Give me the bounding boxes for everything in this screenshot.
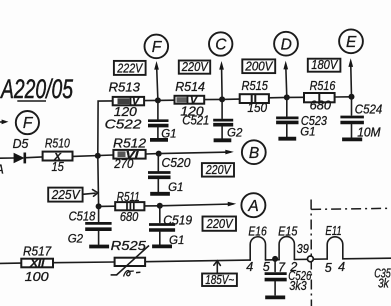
svg-text:10M: 10M bbox=[357, 125, 381, 139]
capacitor C521 bbox=[182, 99, 233, 138]
svg-text:39: 39 bbox=[297, 242, 309, 256]
junction A arrow bbox=[157, 203, 163, 209]
svg-text:G2: G2 bbox=[227, 127, 243, 139]
arrow up to terminal D bbox=[283, 61, 288, 98]
svg-text:222V: 222V bbox=[116, 61, 143, 75]
svg-text:220V: 220V bbox=[206, 217, 234, 231]
svg-text:E16: E16 bbox=[248, 225, 266, 239]
resistor R512 bbox=[113, 137, 146, 171]
svg-text:3k3: 3k3 bbox=[289, 279, 307, 293]
wire bottom row left bbox=[0, 262, 21, 264]
wire R512 to junction B bbox=[146, 153, 159, 155]
svg-text:B: B bbox=[249, 145, 259, 162]
capacitor C526 bbox=[265, 259, 312, 295]
svg-text:180V: 180V bbox=[311, 58, 338, 72]
svg-text:R515: R515 bbox=[242, 79, 268, 93]
voltage label 180V bbox=[308, 58, 341, 72]
resistor R517 bbox=[21, 244, 53, 284]
svg-text:G1: G1 bbox=[161, 128, 176, 140]
svg-text:C: C bbox=[215, 37, 227, 54]
wire vertical junction up to top bus corner bbox=[98, 101, 113, 156]
voltage label 222V bbox=[114, 61, 146, 75]
junction C arrow bbox=[219, 96, 225, 102]
capacitor C522 bbox=[105, 100, 169, 138]
wire R511 to junction A bbox=[144, 205, 159, 207]
svg-text:100: 100 bbox=[25, 270, 49, 284]
resistor R511 bbox=[115, 190, 144, 224]
wire R510 to R512 through junction bbox=[73, 155, 114, 156]
svg-text:270: 270 bbox=[113, 157, 133, 171]
voltage label 200V bbox=[242, 59, 275, 73]
wire E15 to node 39 bbox=[294, 258, 307, 260]
svg-text:E11: E11 bbox=[325, 224, 341, 238]
wire R514 to junction C bbox=[204, 98, 222, 100]
terminal C bbox=[209, 32, 232, 55]
terminal F left bbox=[16, 111, 39, 134]
junction R511 row bbox=[96, 203, 102, 209]
resistor R515 bbox=[240, 79, 269, 115]
diode D5 bbox=[13, 137, 29, 163]
wire junction F to R514 bbox=[158, 99, 175, 101]
wire R516 to junction E bbox=[335, 96, 352, 98]
svg-text:220V: 220V bbox=[205, 163, 232, 177]
svg-text:R516: R516 bbox=[310, 79, 336, 93]
svg-text:C524: C524 bbox=[355, 103, 383, 117]
svg-text:R513: R513 bbox=[109, 81, 140, 95]
resistor R516 bbox=[304, 79, 335, 112]
svg-text:220V: 220V bbox=[181, 60, 209, 74]
terminal E bbox=[339, 29, 363, 53]
coil E11 bbox=[325, 224, 342, 259]
capacitor C519 bbox=[149, 206, 192, 244]
svg-text:E: E bbox=[346, 34, 357, 51]
svg-text:E15: E15 bbox=[278, 225, 297, 239]
svg-text:XII: XII bbox=[29, 258, 45, 270]
wire R517 to R525 bbox=[53, 261, 115, 264]
svg-text:C522: C522 bbox=[105, 118, 142, 132]
arrow 185V to bottom wire bbox=[214, 261, 221, 274]
svg-text:A220/05: A220/05 bbox=[0, 74, 74, 104]
wire vertical junction down to R511 row bbox=[97, 156, 100, 207]
voltage label 185V~ bbox=[202, 273, 237, 287]
svg-text:15: 15 bbox=[52, 160, 64, 174]
svg-text:4: 4 bbox=[338, 260, 345, 274]
input arrow to terminal F left bbox=[0, 120, 8, 125]
voltage label 220V row B bbox=[202, 163, 234, 177]
capacitor C523 bbox=[276, 97, 327, 136]
svg-text:C521: C521 bbox=[182, 114, 209, 128]
svg-text:R512: R512 bbox=[113, 137, 146, 151]
svg-text:A: A bbox=[247, 198, 258, 215]
voltage label 225V bbox=[48, 188, 82, 202]
svg-text:R510: R510 bbox=[45, 137, 70, 151]
svg-text:200V: 200V bbox=[244, 59, 273, 73]
svg-text:C518: C518 bbox=[69, 209, 96, 223]
arrow up to terminal F bbox=[154, 61, 159, 100]
svg-text:C519: C519 bbox=[163, 213, 192, 227]
ground G1 under C523 bbox=[278, 126, 315, 138]
svg-text:3k: 3k bbox=[378, 276, 389, 290]
ground G1 under C519 bbox=[152, 235, 184, 247]
wire E16 to E15 bbox=[266, 259, 280, 261]
capacitor C518 bbox=[69, 206, 112, 244]
terminal A bbox=[241, 193, 265, 217]
wire input to D5 bbox=[0, 157, 14, 159]
capacitor C520 bbox=[148, 154, 191, 192]
resistor R514 bbox=[175, 80, 206, 118]
ground bar under C524 bbox=[342, 125, 381, 139]
wire R513 to junction F bbox=[144, 99, 158, 101]
svg-text:225V: 225V bbox=[51, 188, 82, 202]
svg-text:4: 4 bbox=[246, 260, 253, 274]
ground G1 under C522 bbox=[150, 128, 177, 140]
svg-text:R517: R517 bbox=[23, 244, 52, 258]
wire D5 to R510 bbox=[26, 156, 43, 159]
junction F arrow bbox=[155, 97, 161, 103]
ground G2 under C518 bbox=[68, 234, 109, 247]
svg-text:G2: G2 bbox=[68, 234, 84, 246]
terminal B bbox=[242, 140, 266, 164]
wire node 39 to E11 bbox=[313, 258, 327, 260]
svg-text:R511: R511 bbox=[117, 190, 140, 204]
title A220/05 bbox=[0, 74, 74, 104]
svg-text:5: 5 bbox=[263, 260, 270, 274]
ground bar under C526 bbox=[265, 295, 285, 299]
svg-text:C520: C520 bbox=[162, 156, 191, 170]
voltage label 220V top bbox=[179, 60, 210, 74]
junction B arrow bbox=[156, 151, 162, 157]
junction at R510/R512/vertical bbox=[95, 153, 101, 159]
resistor R510 bbox=[43, 137, 73, 175]
svg-text:R514: R514 bbox=[175, 80, 205, 94]
junction C526 bbox=[272, 256, 278, 262]
coil E15 bbox=[278, 225, 297, 260]
dash-dot module boundary vertical bbox=[310, 200, 312, 306]
wire R525 to E16 bbox=[145, 260, 250, 262]
svg-text:D: D bbox=[281, 36, 292, 53]
capacitor C524 bbox=[340, 97, 382, 138]
svg-text:5: 5 bbox=[325, 261, 332, 275]
arrow up to terminal E bbox=[348, 58, 353, 97]
svg-text:150: 150 bbox=[247, 101, 267, 115]
svg-text:680: 680 bbox=[120, 210, 138, 224]
node 39 bbox=[297, 242, 314, 262]
coil E16 bbox=[248, 225, 266, 261]
svg-text:F: F bbox=[152, 39, 163, 56]
terminal F bbox=[145, 35, 169, 59]
resistor R513 bbox=[109, 81, 144, 120]
svg-text:R525: R525 bbox=[111, 239, 146, 253]
wire E11 to right edge bbox=[343, 257, 391, 260]
arrow 225V to vertical wire bbox=[83, 190, 98, 197]
svg-text:G1: G1 bbox=[168, 182, 183, 194]
arrow to terminal A bbox=[160, 202, 236, 207]
junction E arrow bbox=[349, 94, 355, 100]
wire R515 to junction D bbox=[269, 96, 287, 98]
ground G1 under C520 bbox=[150, 182, 183, 194]
voltage label 220V row A bbox=[203, 217, 237, 232]
wire junction D to R516 bbox=[287, 96, 304, 98]
svg-text:680: 680 bbox=[310, 99, 331, 113]
svg-text:185V~: 185V~ bbox=[205, 273, 234, 287]
ground G2 under C521 bbox=[214, 127, 243, 140]
wire junction C to R515 bbox=[222, 98, 240, 100]
resistor R525 variable bbox=[111, 239, 149, 276]
terminal D bbox=[274, 32, 298, 56]
svg-text:F: F bbox=[23, 115, 34, 132]
capacitor C35 partial label bbox=[374, 267, 391, 291]
wire junction to R511 bbox=[99, 205, 116, 207]
svg-text:A: A bbox=[0, 163, 4, 177]
arrow up to terminal C bbox=[219, 61, 224, 99]
svg-text:G1: G1 bbox=[300, 126, 315, 138]
dash-dot module boundary horizontal bbox=[311, 208, 391, 209]
svg-text:D5: D5 bbox=[13, 137, 29, 151]
junction D arrow bbox=[284, 94, 290, 100]
svg-text:G1: G1 bbox=[169, 235, 184, 247]
arrow to terminal B bbox=[159, 150, 234, 155]
